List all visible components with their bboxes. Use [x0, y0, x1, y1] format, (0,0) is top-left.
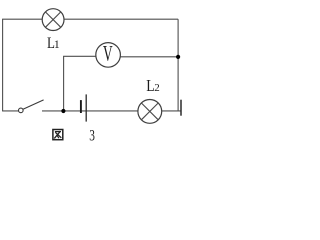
- svg-text:V: V: [103, 41, 113, 65]
- battery terminal bar right: [180, 100, 182, 116]
- wire right vertical: [177, 19, 179, 111]
- label L2: [146, 77, 160, 96]
- label L1: [47, 35, 60, 53]
- wire bottom main segment: [42, 110, 181, 112]
- wire top horizontal: [2, 18, 178, 20]
- lamp L2: [138, 100, 162, 124]
- label figure caption 图: [53, 130, 63, 140]
- wire voltmeter right horizontal: [120, 56, 178, 58]
- battery positive plate (long thin): [85, 94, 87, 121]
- wire bottom left segment: [2, 110, 19, 112]
- battery negative plate (short thick): [80, 100, 82, 113]
- junction dot right: [176, 55, 180, 59]
- wire voltmeter branch vertical: [63, 56, 65, 111]
- svg-text:3: 3: [89, 128, 95, 145]
- wire left vertical: [2, 19, 4, 111]
- wire voltmeter left horizontal: [63, 55, 96, 57]
- svg-text:1: 1: [54, 37, 60, 51]
- switch S lever: [23, 100, 44, 109]
- voltmeter V: [96, 41, 121, 67]
- switch S pivot: [19, 108, 24, 113]
- label figure number 3: [89, 128, 95, 145]
- junction dot bottom: [61, 109, 65, 113]
- lamp L1: [42, 9, 64, 31]
- svg-text:2: 2: [154, 82, 160, 94]
